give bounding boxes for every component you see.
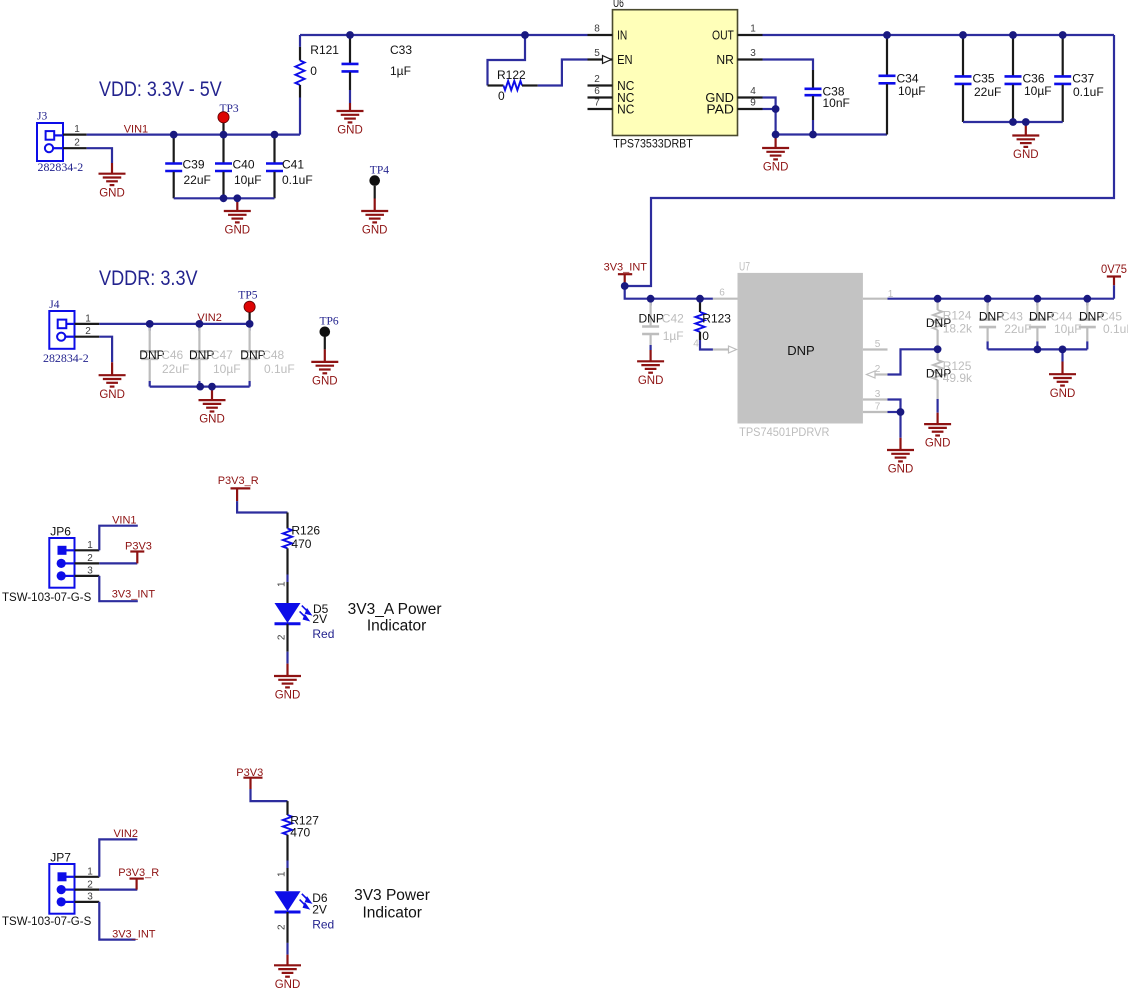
wire C39-C41 bottom rail bbox=[174, 197, 275, 199]
wire R125 to ground bbox=[936, 399, 938, 413]
svg-text:282834-2: 282834-2 bbox=[38, 160, 84, 174]
svg-text:EN: EN bbox=[617, 53, 633, 67]
svg-text:49.9k: 49.9k bbox=[943, 371, 973, 385]
junction PAD bbox=[772, 105, 780, 113]
junction R124-R125 bbox=[934, 345, 942, 353]
wire R122 to EN bbox=[538, 60, 588, 86]
wire C42 top stub bbox=[649, 299, 651, 306]
svg-text:3V3_A Power: 3V3_A Power bbox=[348, 601, 442, 618]
svg-text:TSW-103-07-G-S: TSW-103-07-G-S bbox=[2, 916, 92, 928]
connector J3 bbox=[37, 111, 83, 175]
resistor R124 (DNP) bbox=[926, 299, 973, 350]
svg-text:10nF: 10nF bbox=[823, 96, 850, 110]
svg-text:1: 1 bbox=[277, 871, 288, 877]
capacitor C46 (DNP) bbox=[139, 324, 189, 381]
net label VIN1 bbox=[124, 124, 148, 136]
wire D6 to ground bbox=[277, 912, 288, 955]
U7 pin 7 stub bbox=[863, 402, 888, 413]
net label VIN2 bbox=[197, 312, 221, 324]
J4 pin 1 stub bbox=[75, 313, 100, 324]
ground under C33 bbox=[337, 103, 364, 137]
J4 pin 2 stub bbox=[75, 326, 100, 337]
U6 pin 5 EN bbox=[588, 48, 633, 67]
resistor R121 bbox=[295, 43, 339, 98]
svg-text:4: 4 bbox=[693, 339, 699, 350]
JP6 pin 2 stub bbox=[75, 553, 100, 564]
power port 3V3_INT bbox=[604, 262, 648, 283]
wire U7 output rail bbox=[888, 298, 1115, 300]
svg-text:1: 1 bbox=[85, 313, 91, 324]
ground under TP6 bbox=[311, 349, 338, 387]
resistor R125 (DNP) bbox=[926, 349, 973, 399]
JP6 pin 3 stub bbox=[75, 566, 100, 577]
svg-text:VDDR: 3.3V: VDDR: 3.3V bbox=[99, 267, 198, 290]
junction C43 tap bbox=[984, 295, 992, 303]
wire OUT down to 3V3_INT bbox=[625, 35, 1114, 286]
wire VIN2 rail bbox=[99, 323, 249, 325]
capacitor C42 (DNP) bbox=[639, 299, 685, 345]
svg-text:5: 5 bbox=[594, 48, 600, 59]
svg-text:1: 1 bbox=[750, 24, 756, 35]
resistor R126 bbox=[283, 513, 321, 575]
U7 pin 6 stub bbox=[713, 288, 738, 299]
junction pin7 bbox=[897, 408, 905, 416]
svg-text:6: 6 bbox=[719, 288, 725, 299]
svg-text:U7: U7 bbox=[739, 262, 750, 274]
junction GND stem VDDR bbox=[208, 383, 216, 391]
test point TP6 bbox=[320, 316, 339, 350]
svg-text:2: 2 bbox=[85, 326, 91, 337]
LED D6 bbox=[275, 891, 335, 931]
wire gnd stem bbox=[1061, 349, 1063, 361]
svg-text:R123: R123 bbox=[702, 312, 731, 326]
svg-text:3V3_INT: 3V3_INT bbox=[604, 262, 648, 274]
wire C45 top stub bbox=[1086, 299, 1088, 306]
svg-text:GND: GND bbox=[337, 125, 363, 137]
svg-text:3V3_INT: 3V3_INT bbox=[112, 589, 156, 601]
capacitor C35 bbox=[955, 35, 1002, 122]
svg-text:NR: NR bbox=[716, 53, 734, 67]
wire C47 top stub bbox=[198, 324, 200, 331]
svg-text:0.1uF: 0.1uF bbox=[1073, 85, 1104, 99]
U6 pin 7 NC bbox=[588, 98, 635, 117]
svg-text:DNP: DNP bbox=[639, 312, 664, 326]
svg-text:3: 3 bbox=[750, 48, 756, 59]
capacitor C41 bbox=[266, 135, 313, 199]
svg-text:P3V3_R: P3V3_R bbox=[118, 867, 159, 879]
svg-text:JP6: JP6 bbox=[50, 524, 71, 538]
power port P3V3 bbox=[236, 767, 263, 789]
U7 pin 4 stub bbox=[693, 339, 736, 354]
svg-text:18.2k: 18.2k bbox=[943, 322, 973, 336]
wire C43-C45 bottom rail bbox=[988, 348, 1088, 350]
svg-text:OUT: OUT bbox=[712, 28, 734, 42]
U7 pin 2 stub bbox=[867, 364, 888, 378]
junction GND stem bbox=[233, 194, 241, 202]
U6 pin 2 NC bbox=[588, 74, 635, 93]
junction VIN1-C40 bbox=[220, 131, 228, 139]
junction GND stem right bbox=[1022, 118, 1030, 126]
wire JP7 pin1 to VIN2 bbox=[99, 839, 137, 876]
svg-text:C40: C40 bbox=[233, 157, 255, 171]
junction VIN2-C47 bbox=[196, 320, 204, 328]
capacitor C43 (DNP) bbox=[979, 299, 1032, 342]
svg-text:TP5: TP5 bbox=[238, 290, 257, 302]
ground under U7 bbox=[887, 438, 914, 476]
svg-text:C46: C46 bbox=[161, 348, 183, 362]
svg-text:3V3 Power: 3V3 Power bbox=[354, 887, 430, 904]
wire C43 bottom stub bbox=[986, 341, 988, 349]
ground under C44 bbox=[1049, 362, 1076, 400]
junction C44 tap bbox=[1034, 295, 1042, 303]
svg-text:3: 3 bbox=[87, 566, 93, 577]
junction top-R122 bbox=[521, 31, 529, 39]
wire U6 GND/PAD bbox=[763, 98, 776, 135]
U6 pin 4 GND bbox=[705, 86, 762, 105]
test point TP5 bbox=[238, 290, 257, 324]
U7 pin 1 stub bbox=[863, 289, 894, 300]
wire R121 top bbox=[299, 35, 301, 47]
wire C42 to ground bbox=[649, 345, 651, 350]
text 3V3_A Power Indicator bbox=[348, 601, 442, 635]
capacitor C48 (DNP) bbox=[240, 324, 294, 381]
svg-text:0.1uF: 0.1uF bbox=[1103, 322, 1128, 336]
junction OUT-C36 bbox=[1009, 31, 1017, 39]
power port P3V3_R at JP7 bbox=[118, 867, 159, 890]
junction C45 tap bbox=[1083, 295, 1091, 303]
title VDDR supply bbox=[99, 267, 198, 290]
ground under C47 bbox=[199, 387, 226, 426]
svg-text:C39: C39 bbox=[183, 157, 205, 171]
ground under J4 bbox=[99, 362, 126, 401]
svg-text:GND: GND bbox=[888, 464, 914, 476]
wire R127 to D6 bbox=[277, 861, 288, 892]
svg-text:VIN1: VIN1 bbox=[124, 124, 148, 136]
svg-text:GND: GND bbox=[1013, 149, 1039, 161]
svg-text:J4: J4 bbox=[49, 299, 59, 311]
junction C44 bottom bbox=[1034, 346, 1042, 354]
J3 pin 2 stub bbox=[63, 138, 87, 149]
wire C45 bottom stub bbox=[1086, 341, 1088, 349]
svg-text:470: 470 bbox=[291, 537, 311, 551]
junction C36 bottom bbox=[1009, 118, 1017, 126]
svg-text:TP6: TP6 bbox=[320, 316, 339, 328]
svg-text:TPS73533DRBT: TPS73533DRBT bbox=[613, 137, 693, 151]
svg-text:2: 2 bbox=[277, 924, 288, 930]
connector JP7 bbox=[2, 850, 92, 928]
svg-text:P3V3_R: P3V3_R bbox=[218, 475, 259, 487]
ground under U6 bbox=[762, 135, 789, 174]
junction top-C33 bbox=[346, 31, 354, 39]
wire GND rail to C34 bbox=[776, 133, 887, 135]
svg-text:Indicator: Indicator bbox=[367, 618, 426, 635]
ground under J3 bbox=[99, 163, 126, 199]
svg-text:U6: U6 bbox=[613, 0, 624, 10]
junction R123 tap bbox=[696, 295, 704, 303]
svg-text:0V75: 0V75 bbox=[1101, 264, 1127, 276]
svg-text:1µF: 1µF bbox=[390, 64, 411, 78]
svg-text:DNP: DNP bbox=[787, 343, 814, 358]
text 3V3 Power Indicator bbox=[354, 887, 430, 921]
wire C35-C37 bottom rail bbox=[963, 121, 1063, 123]
ground under C36 bbox=[1012, 122, 1039, 161]
svg-text:470: 470 bbox=[290, 826, 310, 840]
svg-text:C35: C35 bbox=[973, 72, 995, 86]
svg-text:10µF: 10µF bbox=[1024, 84, 1052, 98]
svg-text:1: 1 bbox=[87, 540, 93, 551]
svg-text:22uF: 22uF bbox=[974, 85, 1001, 99]
wire R121 bottom bbox=[299, 98, 301, 135]
svg-text:GND: GND bbox=[225, 225, 251, 237]
wire U7 pin3 bbox=[888, 400, 901, 413]
svg-text:0: 0 bbox=[498, 89, 505, 103]
wire R123 to U7 pin4 bbox=[700, 340, 713, 350]
svg-text:VIN1: VIN1 bbox=[112, 515, 136, 527]
wire C46 bottom stub bbox=[149, 381, 151, 387]
svg-text:5: 5 bbox=[875, 339, 881, 350]
svg-text:VIN2: VIN2 bbox=[114, 828, 138, 840]
ground under TP4 bbox=[361, 199, 388, 237]
wire U7 pin7 to ground bbox=[888, 412, 901, 438]
wire OUT rail bbox=[763, 34, 1115, 36]
wire JP7 pin3 to 3V3_INT bbox=[99, 902, 135, 940]
wire C43 top stub bbox=[986, 299, 988, 306]
JP7 pin 1 stub bbox=[75, 867, 100, 878]
svg-text:GND: GND bbox=[275, 690, 301, 702]
capacitor C39 bbox=[165, 135, 211, 199]
wire C46 top stub bbox=[149, 324, 151, 331]
svg-text:J3: J3 bbox=[37, 111, 47, 123]
svg-text:0: 0 bbox=[310, 64, 317, 78]
svg-text:22uF: 22uF bbox=[184, 173, 211, 187]
title VDD supply bbox=[99, 78, 222, 101]
power port P3V3_R bbox=[218, 475, 259, 501]
ground under C42 bbox=[637, 350, 664, 387]
svg-text:2: 2 bbox=[87, 553, 93, 564]
svg-text:10µF: 10µF bbox=[1054, 322, 1082, 336]
svg-text:10µF: 10µF bbox=[213, 362, 241, 376]
svg-text:7: 7 bbox=[875, 402, 881, 413]
svg-text:GND: GND bbox=[638, 375, 664, 387]
net label VIN1 at JP6 bbox=[112, 515, 136, 527]
capacitor C37 bbox=[1054, 35, 1103, 122]
svg-text:22uF: 22uF bbox=[1004, 322, 1031, 336]
svg-text:GND: GND bbox=[99, 187, 125, 199]
capacitor C33 bbox=[342, 35, 413, 90]
svg-text:Red: Red bbox=[312, 917, 334, 931]
op-amp U6 body bbox=[613, 0, 738, 151]
svg-text:10µF: 10µF bbox=[234, 173, 262, 187]
test point TP4 bbox=[369, 164, 389, 198]
junction VIN2-C48 bbox=[246, 320, 254, 328]
svg-text:10µF: 10µF bbox=[898, 84, 926, 98]
capacitor C47 (DNP) bbox=[189, 324, 241, 381]
U6 pin 6 NC bbox=[588, 86, 635, 105]
svg-text:C33: C33 bbox=[390, 43, 412, 57]
svg-text:1: 1 bbox=[74, 124, 80, 135]
svg-text:C42: C42 bbox=[662, 312, 684, 326]
wire C33 to ground bbox=[349, 90, 351, 103]
U7 pin 3 stub bbox=[863, 389, 888, 400]
wire P3V3_R to R126 bbox=[237, 501, 287, 512]
wire NR to C38 bbox=[763, 60, 814, 71]
U6 pin 3 NR bbox=[716, 48, 762, 67]
svg-text:C37: C37 bbox=[1072, 72, 1094, 86]
junction OUT-C35 bbox=[959, 31, 967, 39]
ground under C40 bbox=[224, 198, 251, 236]
svg-text:Red: Red bbox=[312, 627, 334, 641]
ground under R125 bbox=[924, 413, 951, 450]
junction VIN1-C41 bbox=[271, 131, 279, 139]
junction GND stem bbox=[1059, 346, 1067, 354]
power port P3V3 bbox=[125, 541, 152, 564]
JP6 pin 1 stub bbox=[75, 540, 100, 551]
resistor R127 bbox=[283, 801, 319, 860]
wire R126 to D5 bbox=[277, 575, 288, 604]
test point TP3 bbox=[218, 103, 239, 135]
svg-text:GND: GND bbox=[925, 438, 951, 450]
U6 pin 9 PAD bbox=[706, 98, 762, 117]
svg-text:282834-2: 282834-2 bbox=[43, 351, 89, 365]
svg-text:NC: NC bbox=[617, 102, 634, 116]
JP7 pin 3 stub bbox=[75, 892, 100, 903]
wire JP6 pin1 to VIN1 bbox=[99, 526, 138, 551]
wire C47 bottom stub bbox=[198, 381, 200, 387]
svg-text:C41: C41 bbox=[282, 157, 304, 171]
U7 pin 5 stub bbox=[863, 339, 888, 350]
svg-text:1: 1 bbox=[277, 581, 288, 587]
svg-text:1µF: 1µF bbox=[663, 329, 684, 343]
svg-text:GND: GND bbox=[362, 225, 388, 237]
junction VIN1-C39 bbox=[170, 131, 178, 139]
svg-text:2: 2 bbox=[87, 879, 93, 890]
svg-text:8: 8 bbox=[594, 24, 600, 35]
svg-text:R124: R124 bbox=[943, 308, 972, 322]
LED D5 bbox=[275, 602, 335, 641]
junction GND rail bbox=[772, 131, 780, 139]
JP7 pin 2 stub bbox=[75, 879, 100, 890]
svg-text:TPS74501PDRVR: TPS74501PDRVR bbox=[739, 425, 830, 439]
svg-text:PAD: PAD bbox=[706, 102, 734, 116]
svg-text:2: 2 bbox=[594, 74, 600, 85]
capacitor C45 (DNP) bbox=[1079, 299, 1128, 342]
svg-text:GND: GND bbox=[275, 979, 301, 988]
svg-text:IN: IN bbox=[617, 28, 627, 42]
wire JP6 pin3 to 3V3_INT bbox=[99, 576, 138, 601]
resistor R123 bbox=[695, 299, 731, 343]
svg-text:22uF: 22uF bbox=[162, 362, 189, 376]
svg-text:9: 9 bbox=[750, 98, 756, 109]
U6 pin 8 IN bbox=[588, 24, 628, 43]
svg-text:1: 1 bbox=[87, 867, 93, 878]
svg-text:2V: 2V bbox=[312, 903, 327, 917]
svg-text:C47: C47 bbox=[211, 348, 233, 362]
wire C48 bottom stub bbox=[249, 381, 251, 387]
wire C46-C48 bottom rail bbox=[150, 386, 250, 388]
wire JP6 pin2 to P3V3 bbox=[99, 562, 137, 564]
wire C44 top stub bbox=[1036, 299, 1038, 306]
J4 pin2 ground wire bbox=[99, 337, 112, 363]
capacitor C36 bbox=[1005, 35, 1052, 122]
connector J4 bbox=[43, 299, 89, 365]
junction C40 bottom bbox=[220, 194, 228, 202]
svg-text:GND: GND bbox=[1050, 388, 1076, 400]
svg-text:7: 7 bbox=[594, 98, 600, 109]
svg-text:3V3_INT: 3V3_INT bbox=[112, 929, 156, 941]
svg-text:0.1uF: 0.1uF bbox=[264, 362, 295, 376]
svg-text:R126: R126 bbox=[291, 524, 320, 538]
junction C38 bottom bbox=[809, 131, 817, 139]
svg-text:GND: GND bbox=[199, 414, 225, 426]
svg-text:C48: C48 bbox=[262, 348, 284, 362]
wire U7 pin2 to divider bbox=[888, 349, 938, 374]
svg-text:TP4: TP4 bbox=[370, 164, 389, 176]
wire C44 bottom stub bbox=[1036, 341, 1038, 349]
connector JP6 bbox=[2, 524, 92, 604]
svg-text:VDD: 3.3V - 5V: VDD: 3.3V - 5V bbox=[99, 78, 222, 101]
svg-text:3: 3 bbox=[875, 389, 881, 400]
svg-text:6: 6 bbox=[594, 86, 600, 97]
junction VIN2-C46 bbox=[146, 320, 154, 328]
junction OUT-C37 bbox=[1059, 31, 1067, 39]
wire JP7 pin2 to P3V3_R bbox=[99, 888, 137, 890]
net label VIN2 at JP7 bbox=[114, 828, 138, 840]
wire C38 to rail bbox=[812, 120, 814, 135]
power port 0V75 bbox=[1101, 264, 1127, 285]
svg-text:0: 0 bbox=[702, 329, 709, 343]
capacitor C40 bbox=[215, 135, 262, 199]
capacitor C44 (DNP) bbox=[1029, 299, 1082, 342]
svg-text:GND: GND bbox=[312, 376, 338, 388]
svg-text:3: 3 bbox=[87, 892, 93, 903]
wire P3V3 to R127 bbox=[251, 789, 288, 801]
ground under D6 bbox=[274, 955, 301, 988]
wire VIN1 rail bbox=[87, 134, 300, 136]
svg-text:2: 2 bbox=[74, 138, 80, 149]
resistor R122 bbox=[488, 68, 538, 103]
svg-text:GND: GND bbox=[99, 389, 125, 401]
svg-text:Indicator: Indicator bbox=[362, 905, 421, 922]
J3 pin 1 stub bbox=[63, 124, 87, 135]
svg-text:4: 4 bbox=[750, 86, 756, 97]
junction C47 bottom bbox=[196, 383, 204, 391]
svg-text:JP7: JP7 bbox=[50, 850, 71, 864]
svg-text:2: 2 bbox=[277, 634, 288, 640]
net label 3V3_INT at JP7 bbox=[112, 929, 156, 941]
wire D5 to ground bbox=[277, 624, 288, 664]
svg-text:GND: GND bbox=[763, 162, 789, 174]
junction C42 tap bbox=[647, 295, 655, 303]
U6 pin 1 OUT bbox=[712, 24, 763, 43]
capacitor C34 bbox=[879, 35, 926, 135]
J3 pin2 ground wire bbox=[87, 148, 112, 163]
svg-text:R122: R122 bbox=[497, 68, 526, 82]
wire C48 top stub bbox=[249, 324, 251, 331]
svg-text:TSW-103-07-G-S: TSW-103-07-G-S bbox=[2, 592, 92, 604]
op-amp U7 body (DNP) bbox=[738, 262, 863, 440]
wire up to 0V75 bbox=[1113, 285, 1115, 299]
svg-text:0.1uF: 0.1uF bbox=[282, 173, 313, 187]
capacitor C38 bbox=[805, 70, 850, 120]
junction OUT-C34 bbox=[883, 31, 891, 39]
svg-text:R121: R121 bbox=[310, 43, 339, 57]
wire IN top rail bbox=[300, 34, 588, 36]
net label 3V3_INT at JP6 bbox=[112, 589, 156, 601]
ground under D5 bbox=[274, 664, 301, 702]
svg-text:2V: 2V bbox=[312, 612, 327, 626]
junction R124 tap bbox=[934, 295, 942, 303]
wire 3V3_INT to U7 pin6 bbox=[625, 286, 713, 299]
